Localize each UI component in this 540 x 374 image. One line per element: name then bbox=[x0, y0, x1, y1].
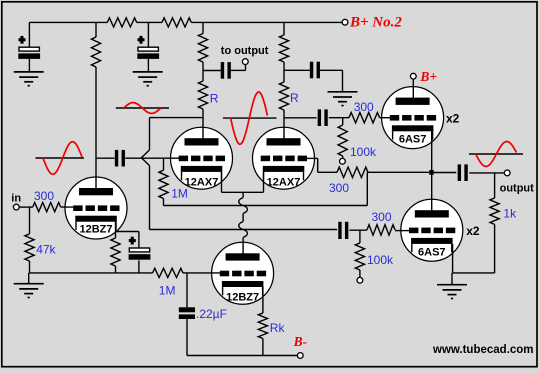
svg-text:100k: 100k bbox=[367, 253, 394, 267]
svg-text:100k: 100k bbox=[350, 145, 377, 159]
svg-text:300: 300 bbox=[372, 210, 392, 224]
svg-text:R: R bbox=[210, 92, 219, 106]
svg-text:300: 300 bbox=[329, 181, 349, 195]
svg-text:12BZ7: 12BZ7 bbox=[226, 291, 259, 303]
svg-text:to output: to output bbox=[221, 45, 269, 57]
svg-text:47k: 47k bbox=[36, 242, 56, 256]
svg-text:R: R bbox=[290, 91, 299, 105]
svg-text:x2: x2 bbox=[446, 111, 460, 125]
svg-text:www.tubecad.com: www.tubecad.com bbox=[432, 344, 534, 356]
svg-text:1M: 1M bbox=[159, 284, 176, 298]
svg-text:6AS7: 6AS7 bbox=[399, 134, 427, 146]
svg-text:12BZ7: 12BZ7 bbox=[79, 224, 112, 236]
svg-text:300: 300 bbox=[354, 100, 374, 114]
svg-text:1M: 1M bbox=[171, 187, 188, 201]
svg-text:300: 300 bbox=[34, 189, 54, 203]
svg-text:in: in bbox=[11, 192, 21, 204]
svg-text:output: output bbox=[500, 182, 535, 194]
svg-text:6AS7: 6AS7 bbox=[418, 247, 446, 259]
svg-text:12AX7: 12AX7 bbox=[185, 176, 219, 188]
svg-text:Rk: Rk bbox=[270, 321, 286, 335]
svg-text:.22µF: .22µF bbox=[196, 307, 227, 321]
svg-text:x2: x2 bbox=[466, 224, 480, 238]
svg-text:B+ No.2: B+ No.2 bbox=[349, 14, 402, 30]
svg-text:1k: 1k bbox=[503, 206, 517, 220]
svg-text:B-: B- bbox=[293, 334, 308, 349]
svg-text:B+: B+ bbox=[419, 69, 437, 84]
svg-text:12AX7: 12AX7 bbox=[267, 176, 301, 188]
